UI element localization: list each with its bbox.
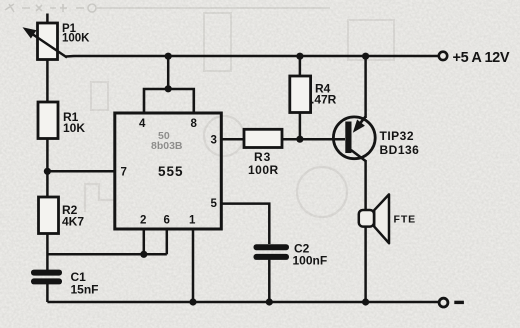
resistor R1 <box>38 102 58 139</box>
ghost bleed-through marks (decorative) <box>5 4 330 12</box>
IC U1 555 <box>115 113 222 229</box>
svg-text:7: 7 <box>121 167 127 179</box>
node bottom rail at speaker <box>362 298 369 305</box>
svg-text:555: 555 <box>158 164 184 179</box>
node pin2 junction <box>140 251 147 258</box>
svg-text:6: 6 <box>164 215 170 227</box>
terminal +V <box>439 52 447 60</box>
svg-text:+5 A 12V: +5 A 12V <box>453 50 510 66</box>
wire pin 3 to R3 <box>221 138 244 141</box>
speaker FTE <box>359 194 389 243</box>
wire C2 to bottom rail <box>268 260 271 302</box>
node bottom rail at C2 <box>266 298 273 305</box>
node junction R1/R2/pin7 <box>44 168 51 175</box>
wire pin 6 down <box>166 229 169 254</box>
svg-text:8b03B: 8b03B <box>151 140 183 152</box>
capacitor C1 <box>31 270 62 285</box>
wire pin 5 to C2 <box>221 204 269 244</box>
node top rail junction at pin4/8 feed <box>165 53 172 60</box>
wire top rail to emitter <box>364 56 367 118</box>
svg-text:1: 1 <box>189 215 196 227</box>
svg-text:3: 3 <box>211 135 217 147</box>
node top rail junction at emitter <box>362 53 369 60</box>
svg-text:5: 5 <box>211 198 218 210</box>
svg-text:BD136: BD136 <box>380 143 420 157</box>
wire bridge to top rail <box>167 56 170 89</box>
svg-text:100K: 100K <box>62 33 90 45</box>
potentiometer P1 top lead <box>46 14 49 24</box>
svg-text:TIP32: TIP32 <box>380 129 415 143</box>
wire R4 to base node <box>299 113 302 140</box>
terminal minus <box>439 298 448 307</box>
wire top rail (wiper to +V terminal) <box>66 55 439 58</box>
svg-text:100R: 100R <box>248 163 279 177</box>
capacitor C2 <box>254 244 290 260</box>
wire pin 7 <box>47 170 115 173</box>
svg-text:8: 8 <box>191 118 198 130</box>
svg-text:10K: 10K <box>63 121 85 135</box>
svg-text:.47R: .47R <box>311 93 337 107</box>
wire top rail to R4 <box>299 56 302 76</box>
label minus <box>454 301 464 304</box>
wire R1 to R2 <box>46 139 49 198</box>
wire R3 to transistor base <box>282 138 345 141</box>
wire bottom rail <box>47 301 438 304</box>
wire pin 2 down <box>143 229 146 254</box>
svg-text:15nF: 15nF <box>71 283 99 297</box>
wire R2 to C1 <box>46 234 49 271</box>
resistor R3 <box>244 129 282 147</box>
potentiometer P1 <box>38 23 58 60</box>
svg-text:100nF: 100nF <box>293 254 328 268</box>
wire pin2/pin6 to R2-C1 node <box>47 253 166 256</box>
wire P1 to R1 <box>46 60 49 103</box>
wire collector to speaker <box>364 160 367 211</box>
node bridge junction <box>165 85 172 92</box>
resistor R2 <box>39 197 59 234</box>
node bottom rail at pin1 <box>189 298 196 305</box>
svg-text:4K7: 4K7 <box>62 215 84 229</box>
wire pin 1 to bottom rail <box>192 229 195 302</box>
resistor R4 <box>290 76 311 113</box>
svg-text:R3: R3 <box>254 150 271 164</box>
svg-text:4: 4 <box>139 118 146 130</box>
transistor Q1 TIP32/BD136 <box>333 117 375 162</box>
wire speaker to bottom rail <box>364 227 367 302</box>
svg-text:2: 2 <box>140 215 146 227</box>
wire C1 to ground rail <box>46 284 49 302</box>
potentiometer P1 wiper arrow <box>23 27 68 57</box>
node base/R4 junction <box>296 136 303 143</box>
wire pins 4+8 bridge <box>144 89 194 113</box>
svg-text:FTE: FTE <box>394 214 417 226</box>
node top rail junction at R4 <box>296 53 303 60</box>
